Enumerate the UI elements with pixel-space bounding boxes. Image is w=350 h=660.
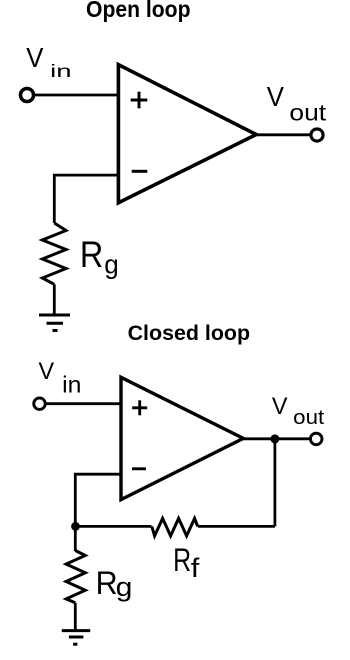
svg-text:g: g xyxy=(104,250,119,280)
op-amp U2 plus input symbol xyxy=(132,400,147,415)
op-amp U1 minus input symbol xyxy=(132,170,148,173)
svg-text:out: out xyxy=(293,407,324,429)
junction dot output node xyxy=(270,434,279,443)
output terminal circle (circuit 2) xyxy=(310,433,322,445)
svg-text:g: g xyxy=(116,572,133,602)
resistor Rg (circuit 2) xyxy=(66,551,85,603)
node Vin label (circuit 1) xyxy=(26,42,71,81)
ground symbol (circuit 2) xyxy=(62,631,90,645)
svg-text:in: in xyxy=(62,371,81,397)
label Rg (circuit 2) xyxy=(96,564,133,602)
wire feedback vertical up to output node xyxy=(273,439,276,527)
resistor Rg (circuit 1) xyxy=(42,223,66,284)
wire Vin terminal to op-amp + input xyxy=(34,94,120,97)
wire Rg to ground (circuit 2) xyxy=(74,603,77,631)
wire Vin terminal to op-amp + input (circuit 2) xyxy=(46,402,123,405)
output terminal circle (circuit 1) xyxy=(311,129,323,141)
node Vin label (circuit 2) xyxy=(39,358,82,398)
node Vout label (circuit 2) xyxy=(272,393,325,429)
wire op-amp output to Vout terminal (circuit 1) xyxy=(255,133,311,136)
op-amp U2 minus input symbol xyxy=(132,467,146,470)
op-amp U1 triangle xyxy=(118,65,256,203)
wire op-amp - input to resistor Rg (circuit 1) xyxy=(54,175,120,223)
resistor Rf xyxy=(152,518,198,536)
wire op-amp - input down to feedback node (circuit 2) xyxy=(75,474,122,551)
label Rf xyxy=(173,541,200,583)
svg-text:V: V xyxy=(26,42,44,73)
svg-text:Closed loop: Closed loop xyxy=(128,322,251,345)
wire feedback node to resistor Rf xyxy=(75,525,151,528)
input terminal circle (circuit 1) xyxy=(20,88,33,101)
op-amp U2 triangle xyxy=(121,377,243,499)
ground symbol (circuit 1) xyxy=(39,315,70,331)
svg-text:R: R xyxy=(96,564,118,601)
svg-text:out: out xyxy=(289,99,326,125)
svg-text:V: V xyxy=(267,81,285,112)
svg-text:in: in xyxy=(50,61,71,81)
svg-text:V: V xyxy=(39,358,55,385)
svg-text:V: V xyxy=(272,393,288,420)
input terminal circle (circuit 2) xyxy=(34,398,46,410)
svg-text:R: R xyxy=(173,541,191,578)
wire op-amp output to Vout terminal (circuit 2) xyxy=(242,437,310,440)
label Rg (circuit 1) xyxy=(80,234,119,280)
svg-text:R: R xyxy=(80,234,103,275)
wire Rg to ground (circuit 1) xyxy=(53,284,56,315)
svg-text:f: f xyxy=(191,553,200,583)
op-amp U1 plus input symbol xyxy=(131,92,148,109)
junction dot feedback node xyxy=(71,522,80,531)
node Vout label (circuit 1) xyxy=(267,81,327,126)
wire Rf to output node xyxy=(198,525,275,528)
svg-text:Open loop: Open loop xyxy=(86,0,191,22)
